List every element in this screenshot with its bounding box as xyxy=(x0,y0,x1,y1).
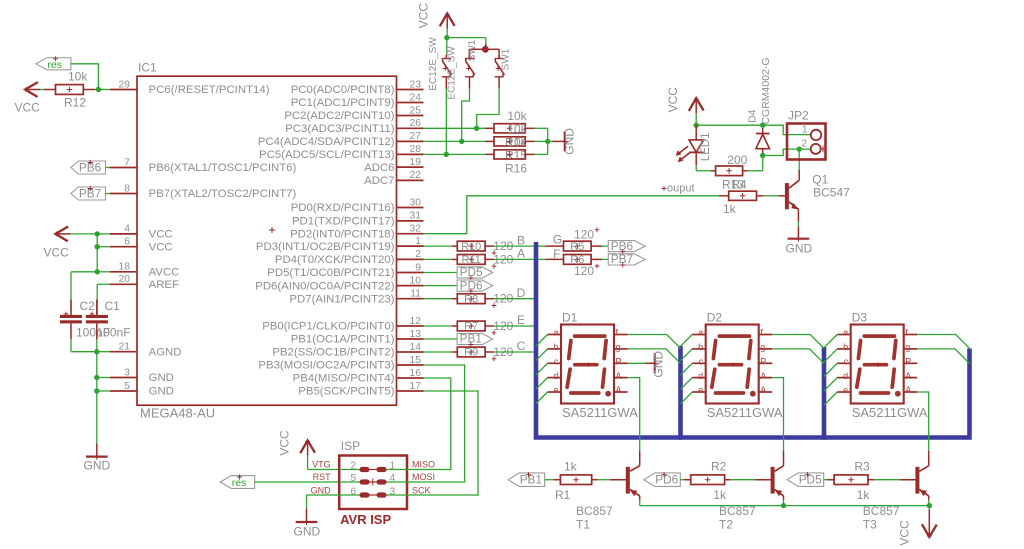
7-segment display D3 SA5211GWA xyxy=(837,311,928,420)
wire D3 pin g to bus xyxy=(917,349,969,364)
svg-text:5: 5 xyxy=(124,381,130,392)
supply symbol VCC (pins 4/6) xyxy=(44,227,71,260)
svg-text:A: A xyxy=(905,371,911,381)
svg-text:PB4(MISO/PCINT4): PB4(MISO/PCINT4) xyxy=(293,373,395,385)
wire bus rippers to D3 pins a-e xyxy=(824,335,837,406)
label BC857 T2 xyxy=(719,504,756,531)
bus segment: left vertical + bottom rail + right vertical xyxy=(536,242,970,438)
svg-text:24: 24 xyxy=(410,92,422,103)
svg-text:1: 1 xyxy=(415,236,421,247)
svg-text:d: d xyxy=(698,371,703,381)
svg-text:GND: GND xyxy=(563,128,577,155)
wire SCK: ISP pin 3 to IC pin 17 xyxy=(407,391,478,495)
connector JP2 xyxy=(787,109,826,160)
svg-text:SA5211GWA: SA5211GWA xyxy=(852,405,928,420)
switch EC12E_SW (middle) xyxy=(447,39,478,99)
svg-text:PC6(/RESET/PCINT14): PC6(/RESET/PCINT14) xyxy=(149,84,270,96)
svg-text:SW1: SW1 xyxy=(500,48,511,70)
svg-text:A: A xyxy=(616,371,622,381)
svg-text:R9: R9 xyxy=(464,347,478,359)
svg-text:PC4(ADC4/SDA/PCINT12): PC4(ADC4/SDA/PCINT12) xyxy=(258,136,395,148)
svg-text:10k: 10k xyxy=(68,70,88,84)
wire pin 28 to resistor R16 xyxy=(424,153,495,155)
svg-text:20: 20 xyxy=(119,274,131,285)
wire PB6 flag to pin 7 xyxy=(106,167,111,169)
svg-text:26: 26 xyxy=(410,118,422,129)
wire common emitter VCC rail xyxy=(640,503,932,510)
svg-text:3: 3 xyxy=(124,367,130,378)
svg-text:b: b xyxy=(553,342,558,352)
wire R9 to bus xyxy=(494,351,536,353)
wire D2 anode A to transistor collector xyxy=(772,378,783,451)
svg-text:BC857: BC857 xyxy=(863,504,900,518)
svg-text:Q1: Q1 xyxy=(812,173,828,187)
wire switch-resistor GND rail xyxy=(545,128,553,154)
wire pin 26 to resistor R14 xyxy=(424,127,495,129)
svg-text:MISO: MISO xyxy=(412,459,435,469)
bus segment: vertical between D2 and D3 xyxy=(822,347,827,440)
svg-text:18: 18 xyxy=(119,262,131,273)
wire net res: flag to pin 29 junction xyxy=(71,64,101,92)
svg-text:4: 4 xyxy=(389,473,395,484)
svg-text:10: 10 xyxy=(410,275,422,286)
svg-text:23: 23 xyxy=(410,79,422,90)
svg-text:9: 9 xyxy=(415,262,421,273)
svg-text:3: 3 xyxy=(389,486,395,497)
svg-text:BC547: BC547 xyxy=(813,186,850,200)
wire net VCC rail to pins 4,6,18 and C2 xyxy=(70,231,110,315)
svg-text:2: 2 xyxy=(350,460,356,471)
svg-text:PB3(MOSI/OC2A/PCINT3): PB3(MOSI/OC2A/PCINT3) xyxy=(258,360,394,372)
svg-text:VTG: VTG xyxy=(312,459,331,469)
svg-text:21: 21 xyxy=(119,342,131,353)
svg-text:SW1: SW1 xyxy=(467,39,478,61)
svg-text:B: B xyxy=(517,233,525,247)
svg-text:SCK: SCK xyxy=(412,486,431,496)
svg-text:10k: 10k xyxy=(507,135,527,149)
svg-text:PD0(RXD/PCINT16): PD0(RXD/PCINT16) xyxy=(291,202,395,214)
wire D3 anode A to transistor collector xyxy=(917,392,929,451)
svg-text:a: a xyxy=(843,328,848,338)
wire T1 emitter to VCC rail xyxy=(639,496,641,506)
svg-text:VCC: VCC xyxy=(898,520,912,546)
wire D1 pin P to GND xyxy=(628,362,654,364)
svg-text:g: g xyxy=(616,342,621,352)
svg-text:PB0(ICP1/CLKO/PCINT0): PB0(ICP1/CLKO/PCINT0) xyxy=(262,321,395,333)
svg-text:E: E xyxy=(517,313,525,327)
resistor R13 200 xyxy=(711,153,748,176)
resistor R15 10k xyxy=(494,122,528,163)
wire D1 anode A to transistor collector xyxy=(628,378,640,451)
wire D1 pin f to bus xyxy=(628,335,681,349)
flag PB7 (pin 8) xyxy=(71,186,106,201)
svg-text:P: P xyxy=(905,357,911,367)
svg-text:D: D xyxy=(517,286,526,300)
svg-text:T1: T1 xyxy=(576,517,590,531)
svg-text:1: 1 xyxy=(389,460,395,471)
svg-text:R5: R5 xyxy=(570,241,584,253)
svg-text:a: a xyxy=(698,328,703,338)
supply symbol VCC (emitter rail, pointing down) xyxy=(898,510,937,546)
svg-text:PC5(ADC5/SCL/PCINT13): PC5(ADC5/SCL/PCINT13) xyxy=(259,149,395,161)
svg-text:31: 31 xyxy=(410,211,422,222)
svg-text:C: C xyxy=(517,339,526,353)
svg-text:D4: D4 xyxy=(746,109,758,123)
wire IC pin row to flag PB1 xyxy=(424,338,458,340)
svg-text:VCC: VCC xyxy=(44,246,70,260)
wire IC pin row to resistor R8 xyxy=(424,298,458,300)
resistor R7 120 xyxy=(457,319,513,335)
svg-text:C2: C2 xyxy=(80,299,96,313)
svg-text:1k: 1k xyxy=(564,459,578,473)
transistor T2 BC857 xyxy=(771,451,784,496)
wire D2 pin g to bus xyxy=(772,349,824,364)
ground symbol GND (Q1) xyxy=(786,237,813,256)
label BC857 T3 xyxy=(863,504,900,531)
svg-text:g: g xyxy=(905,342,910,352)
wire IC pin row to resistor R9 xyxy=(424,351,458,353)
svg-text:CGRM4002-G: CGRM4002-G xyxy=(760,57,772,124)
wire D2 pin f to bus xyxy=(772,335,824,349)
svg-text:ouput: ouput xyxy=(667,182,695,194)
wire PB7 flag to pin 8 xyxy=(106,193,111,195)
wire MISO: ISP pin 1 to IC pin 16 xyxy=(407,378,451,470)
svg-text:ISP: ISP xyxy=(341,439,360,453)
wire R3 to T3 base xyxy=(868,479,915,481)
wire R11 to bus xyxy=(494,258,536,260)
svg-text:1k: 1k xyxy=(723,202,737,216)
bus segment: vertical between D1 and D2 xyxy=(678,346,683,440)
wire bus rippers to D1 pins a-e xyxy=(536,335,548,404)
svg-text:2: 2 xyxy=(801,138,807,149)
svg-text:PB6(XTAL1/TOSC1/PCINT6): PB6(XTAL1/TOSC1/PCINT6) xyxy=(149,162,297,174)
svg-text:ADC6: ADC6 xyxy=(364,162,394,174)
IC1 left pin stubs, pin numbers and pin names xyxy=(110,79,297,397)
svg-text:e: e xyxy=(843,385,848,395)
wire bus to R5 xyxy=(536,245,564,247)
svg-text:LED1: LED1 xyxy=(700,133,712,162)
wire D3 pin f to bus xyxy=(917,335,969,349)
svg-text:e: e xyxy=(698,385,703,395)
svg-text:VCC: VCC xyxy=(417,3,431,29)
svg-text:ADC7: ADC7 xyxy=(364,175,394,187)
wire VCC to R12 xyxy=(40,89,44,91)
svg-text:19: 19 xyxy=(410,157,422,168)
svg-text:7: 7 xyxy=(124,157,130,168)
svg-text:2: 2 xyxy=(415,249,421,260)
wire R6 to flag PB7 xyxy=(591,258,608,260)
wire res flag to ISP RST xyxy=(255,481,340,483)
wire bus to R6 xyxy=(536,258,564,260)
svg-text:13: 13 xyxy=(410,329,422,340)
svg-text:AVCC: AVCC xyxy=(149,267,180,279)
flag PB6 (pin 7) xyxy=(71,160,106,175)
svg-text:SA5211GWA: SA5211GWA xyxy=(562,405,638,420)
wire R8 to bus xyxy=(494,298,536,300)
svg-text:14: 14 xyxy=(410,342,422,353)
wire PB1 flag to resistor R1 xyxy=(545,479,561,481)
IC IC1 MEGA48-AU microcontroller body xyxy=(137,61,397,421)
svg-text:AREF: AREF xyxy=(149,279,179,291)
svg-text:1k: 1k xyxy=(857,488,871,502)
wire VCC to ISP VTG xyxy=(308,455,340,469)
wire net GND: caps to pins 21,3,5 and GND symbol xyxy=(71,339,110,443)
wire bus rippers to D2 pins a-e xyxy=(681,335,693,404)
svg-text:d: d xyxy=(553,371,558,381)
flag PB7 xyxy=(608,252,645,267)
svg-text:d: d xyxy=(843,371,848,381)
wire R13 to D4 cathode node xyxy=(748,156,763,171)
svg-text:PC2(ADC2/PCINT10): PC2(ADC2/PCINT10) xyxy=(284,110,394,122)
svg-text:R3: R3 xyxy=(854,459,870,473)
svg-text:A: A xyxy=(905,385,911,395)
wire left switch to pin 28 row xyxy=(444,89,449,158)
wire R4 to Q1 base xyxy=(757,195,785,197)
ground symbol GND (bottom-left) xyxy=(84,444,111,473)
svg-text:R10: R10 xyxy=(461,241,481,253)
7-segment display D2 SA5211GWA xyxy=(692,311,783,420)
wire R14 to common GND rail xyxy=(525,127,548,129)
wire R7 to bus xyxy=(494,325,536,327)
svg-text:R2: R2 xyxy=(711,459,727,473)
svg-text:GND: GND xyxy=(149,372,174,384)
svg-text:PD7(AIN1/PCINT23): PD7(AIN1/PCINT23) xyxy=(289,293,394,305)
svg-text:GND: GND xyxy=(294,525,321,539)
supply symbol VCC (left of R12) xyxy=(15,82,41,114)
wire R1 to T1 base xyxy=(592,479,626,481)
svg-text:17: 17 xyxy=(410,381,422,392)
svg-text:1k: 1k xyxy=(713,488,727,502)
svg-text:BC857: BC857 xyxy=(719,504,756,518)
svg-text:EC12E_SW: EC12E_SW xyxy=(447,46,458,100)
svg-text:15: 15 xyxy=(410,355,422,366)
svg-text:A: A xyxy=(760,385,766,395)
svg-text:A: A xyxy=(616,385,622,395)
svg-text:PD1(TXD/PCINT17): PD1(TXD/PCINT17) xyxy=(292,216,395,228)
IC1 right pin stubs, pin numbers and pin names xyxy=(255,79,423,397)
svg-text:GND: GND xyxy=(652,351,666,378)
wire IC pin row to resistor R11 xyxy=(424,258,458,260)
wire right switch to pin 26 row xyxy=(474,89,499,132)
wire PD5 flag to resistor R3 xyxy=(824,479,834,481)
transistor T3 BC857 xyxy=(915,451,928,496)
flag PB6 xyxy=(608,239,645,254)
ground symbol GND (ISP) xyxy=(294,520,321,539)
wire IC pin row to resistor R7 xyxy=(424,325,458,327)
supply symbol VCC (ISP) xyxy=(277,430,315,456)
svg-text:GND: GND xyxy=(311,486,332,496)
resistor R3 1k xyxy=(834,459,870,502)
flag PB1 xyxy=(457,332,493,347)
svg-text:PD6(AIN0/OC0A/PCINT22): PD6(AIN0/OC0A/PCINT22) xyxy=(255,280,394,292)
svg-text:T2: T2 xyxy=(719,517,733,531)
svg-text:VCC: VCC xyxy=(149,241,173,253)
svg-text:IC1: IC1 xyxy=(138,61,157,75)
svg-text:PC3(ADC3/PCINT11): PC3(ADC3/PCINT11) xyxy=(285,123,394,135)
resistor R10 120 xyxy=(457,239,513,255)
svg-text:PB7: PB7 xyxy=(611,252,633,266)
wire R10 to bus xyxy=(494,245,536,247)
resistor R8 120 xyxy=(457,292,513,308)
svg-text:6: 6 xyxy=(350,486,356,497)
svg-text:D1: D1 xyxy=(562,311,578,325)
svg-text:R12: R12 xyxy=(64,96,86,110)
svg-text:32: 32 xyxy=(410,224,422,235)
label BC857 T1 xyxy=(576,504,613,531)
flag res (ISP reset) xyxy=(220,474,254,489)
svg-text:PD4(T0/XCK/PCINT20): PD4(T0/XCK/PCINT20) xyxy=(275,254,395,266)
svg-text:PB6: PB6 xyxy=(611,239,634,253)
svg-text:PD2(INT0/PCINT18): PD2(INT0/PCINT18) xyxy=(290,228,395,240)
svg-text:G: G xyxy=(553,232,562,246)
resistor R2 1k xyxy=(691,459,727,502)
transistor Q1 BC547 xyxy=(785,170,850,210)
transistor T1 BC857 xyxy=(626,451,640,496)
svg-text:R15: R15 xyxy=(505,149,527,163)
svg-text:25: 25 xyxy=(410,105,422,116)
node ouput (net label) xyxy=(662,182,695,194)
flag PD5 (drives T3) xyxy=(787,472,824,487)
LED LED1 xyxy=(676,125,712,165)
svg-text:SA5211GWA: SA5211GWA xyxy=(707,405,783,420)
resistor R11 120 xyxy=(457,252,513,268)
svg-text:P: P xyxy=(760,357,766,367)
svg-text:res: res xyxy=(47,59,62,71)
wire middle switch to pin 27 row xyxy=(459,89,470,145)
capacitor C1 100nF xyxy=(86,299,131,340)
flag PD6 xyxy=(457,278,493,293)
wire IC pin row to resistor R10 xyxy=(424,245,458,247)
resistor R14 10k xyxy=(494,109,528,150)
svg-text:PD3(INT1/OC2B/PCINT19): PD3(INT1/OC2B/PCINT19) xyxy=(256,241,395,253)
svg-text:EC12E_SW: EC12E_SW xyxy=(428,37,439,91)
svg-text:5: 5 xyxy=(350,473,356,484)
wire R16 to common GND rail xyxy=(525,153,548,155)
svg-text:PB2(SS/OC1B/PCINT2): PB2(SS/OC1B/PCINT2) xyxy=(272,347,394,359)
7-segment display D1 SA5211GWA xyxy=(548,311,639,420)
svg-text:R16: R16 xyxy=(505,162,527,176)
resistor R12 10k xyxy=(56,70,89,110)
svg-text:27: 27 xyxy=(410,131,422,142)
svg-text:10k: 10k xyxy=(507,122,527,136)
svg-text:RST: RST xyxy=(313,472,332,482)
svg-text:10k: 10k xyxy=(507,109,527,123)
svg-text:22: 22 xyxy=(410,170,422,181)
svg-text:4: 4 xyxy=(124,224,130,235)
supply symbol VCC (switches) xyxy=(417,3,455,29)
flag PD6 (drives T2) xyxy=(644,472,681,487)
svg-text:PD6: PD6 xyxy=(655,473,678,487)
svg-text:28: 28 xyxy=(410,144,422,155)
svg-text:T3: T3 xyxy=(863,517,877,531)
resistor R6 120 xyxy=(564,254,600,278)
svg-text:PD5(T1/OC0B/PCINT21): PD5(T1/OC0B/PCINT21) xyxy=(267,267,394,279)
svg-text:D3: D3 xyxy=(852,311,868,325)
wire T3 emitter to VCC rail xyxy=(928,496,930,506)
svg-text:c: c xyxy=(699,357,704,367)
connector ISP AVR ISP xyxy=(311,439,435,527)
wire R5 to flag PB6 xyxy=(591,245,608,247)
resistor R16 10k xyxy=(494,135,528,176)
svg-text:PB5(SCK/PCINT5): PB5(SCK/PCINT5) xyxy=(298,386,394,398)
ground symbol GND (D1 common) xyxy=(652,351,666,378)
wire D4 node to JP2 pin 2 and Q1 collector xyxy=(760,146,811,170)
svg-text:A: A xyxy=(760,371,766,381)
resistor R5 120 xyxy=(564,227,600,252)
svg-text:PC0(ADC0/PCINT8): PC0(ADC0/PCINT8) xyxy=(291,84,395,96)
svg-text:g: g xyxy=(760,342,765,352)
svg-text:1: 1 xyxy=(802,125,808,136)
wire D1 pin g to bus xyxy=(628,349,681,364)
svg-text:VCC: VCC xyxy=(666,87,680,113)
svg-text:16: 16 xyxy=(410,368,422,379)
wire PD6 flag to resistor R2 xyxy=(680,479,690,481)
wire VCC to switches xyxy=(444,28,499,55)
svg-text:30: 30 xyxy=(410,197,422,208)
diode D4 CGRM4002-G xyxy=(746,57,772,155)
wire ISP GND pin to GND symbol xyxy=(307,495,340,522)
svg-text:200: 200 xyxy=(727,153,747,167)
svg-text:PC1(ADC1/PCINT9): PC1(ADC1/PCINT9) xyxy=(291,97,395,109)
svg-text:VCC: VCC xyxy=(277,430,291,456)
svg-text:12: 12 xyxy=(410,316,422,327)
svg-text:AVR ISP: AVR ISP xyxy=(340,512,391,527)
wire MOSI: ISP pin 4 to IC pin 15 xyxy=(407,365,465,482)
flag PB1 (drives T1) xyxy=(508,472,545,487)
svg-text:AGND: AGND xyxy=(149,346,182,358)
wire LED1 to R13 xyxy=(696,165,711,170)
svg-text:8: 8 xyxy=(124,183,130,194)
svg-text:PD5: PD5 xyxy=(799,473,822,487)
wire R15 to common GND rail xyxy=(525,140,548,142)
resistor R4 1k (Q1 base) xyxy=(719,177,757,216)
svg-text:6: 6 xyxy=(124,237,130,248)
wire R12 to IC1 pin 29 xyxy=(83,89,95,91)
svg-text:e: e xyxy=(553,385,558,395)
svg-text:100nF: 100nF xyxy=(97,326,131,340)
svg-text:120: 120 xyxy=(574,228,594,242)
svg-text:b: b xyxy=(698,342,703,352)
wire VCC to LED1 / D4 / JP2 pin 1 xyxy=(694,113,811,135)
svg-text:120: 120 xyxy=(574,264,594,278)
svg-text:VCC: VCC xyxy=(149,229,173,241)
svg-text:a: a xyxy=(553,328,558,338)
wire pin 27 to resistor R15 xyxy=(424,140,495,142)
svg-text:c: c xyxy=(844,357,849,367)
svg-text:PB7(XTAL2/TOSC2/PCINT7): PB7(XTAL2/TOSC2/PCINT7) xyxy=(149,188,297,200)
svg-text:C1: C1 xyxy=(105,299,121,313)
capacitor C2 100nF xyxy=(60,299,110,340)
wire net ouput: pin 32 to R4 xyxy=(424,196,720,234)
wire Q1 emitter to GND xyxy=(797,209,799,238)
svg-text:D2: D2 xyxy=(707,311,723,325)
supply symbol VCC (LED1) xyxy=(666,87,704,113)
wire R2 to T2 base xyxy=(725,479,771,481)
svg-text:11: 11 xyxy=(410,289,421,300)
svg-text:c: c xyxy=(554,357,559,367)
svg-text:P: P xyxy=(616,357,622,367)
flag res (net label, top-left) xyxy=(36,56,71,71)
wire IC pin row to flag PD5 xyxy=(424,272,458,274)
svg-text:PB1(OC1A/PCINT1): PB1(OC1A/PCINT1) xyxy=(291,334,395,346)
ground symbol GND (switch resistors) xyxy=(553,128,577,155)
flag PD5 xyxy=(457,265,493,280)
svg-text:GND: GND xyxy=(84,459,111,473)
resistor R1 1k xyxy=(555,459,592,502)
svg-text:A: A xyxy=(517,247,525,261)
wire IC pin row to flag PD6 xyxy=(424,285,458,287)
wire T2 emitter to VCC rail xyxy=(783,496,785,506)
